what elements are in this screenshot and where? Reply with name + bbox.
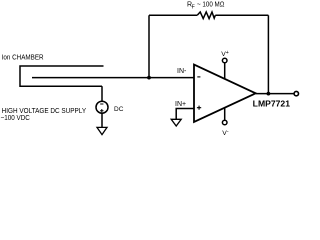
pin V+ wire [224, 63, 226, 79]
pin V- wire [224, 108, 226, 121]
ion chamber outer electrode [20, 66, 104, 86]
ground: HV supply [97, 127, 107, 134]
svg-text:IN+: IN+ [175, 101, 186, 108]
wire: HV supply to ground [101, 113, 103, 127]
svg-text:DC: DC [114, 106, 124, 113]
svg-text:V+: V+ [221, 50, 229, 58]
terminal: V- open circle [222, 120, 227, 125]
wire: feedback left vertical [148, 15, 150, 77]
op-amp U1 LMP7721 [194, 65, 256, 123]
svg-text:~100 VDC: ~100 VDC [1, 115, 30, 122]
op-amp non-inverting input marking (+) [197, 106, 201, 110]
wire: chamber outer electrode to HV supply [101, 86, 103, 101]
ground: IN+ [171, 119, 181, 126]
resistor RF [197, 12, 215, 19]
svg-text:~ 100 MΩ: ~ 100 MΩ [197, 1, 224, 8]
terminal: output open circle [294, 91, 298, 95]
op-amp inverting input marking (-) [197, 76, 200, 78]
node: output junction [267, 92, 271, 96]
svg-text:F: F [192, 5, 195, 11]
node: summing junction at IN- [147, 76, 151, 80]
svg-text:IN-: IN- [177, 68, 187, 75]
svg-text:Ion CHAMBER: Ion CHAMBER [2, 55, 44, 62]
wire: feedback top left segment [149, 14, 197, 16]
svg-text:V-: V- [222, 129, 229, 137]
wire: feedback top right segment [215, 14, 268, 16]
terminal: V+ open circle [222, 58, 227, 63]
ion chamber collector electrode [32, 77, 149, 79]
wire: feedback right vertical [267, 15, 269, 93]
wire: IN+ to ground [176, 109, 194, 120]
svg-text:LMP7721: LMP7721 [253, 99, 291, 108]
wire: output [256, 93, 294, 95]
wire: collector to op-amp IN- [149, 77, 194, 79]
HV DC supply source V1 [96, 101, 108, 113]
